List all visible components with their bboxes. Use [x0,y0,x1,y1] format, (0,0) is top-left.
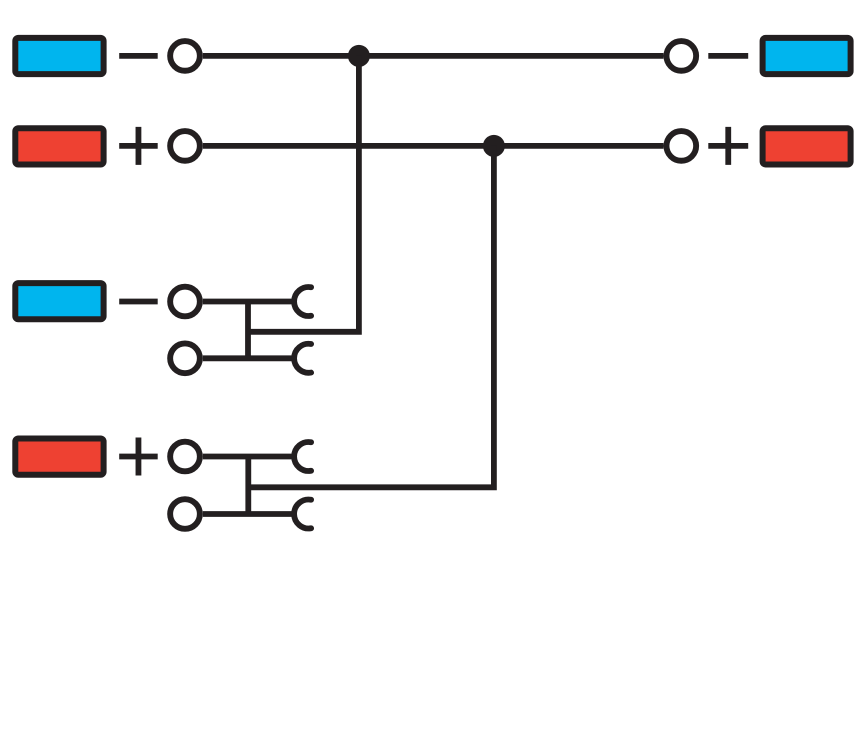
wire row 4 upper [203,454,293,460]
minus sign row 3 [119,299,158,305]
wire row 2 [203,143,664,149]
terminal circle row 3 lower [170,343,200,373]
terminal circle left row 2 [170,131,200,161]
tap contact row 3 upper [294,287,311,316]
terminal circle row 4 upper [170,442,200,472]
plus sign right row 2 [708,127,748,165]
distribution bar row 3 [245,302,251,359]
wire row 3 upper [203,299,293,305]
distribution bar row 4 [245,457,251,515]
plus sign row 4 [119,438,158,476]
terminal circle right row 1 [666,41,696,71]
tap contact row 4 upper [294,442,311,471]
terminal circle row 4 lower [170,499,200,529]
jumper wire from row 1 to row 3 [248,56,359,332]
wire row 1 [203,53,664,59]
red conductor marker right row 2 [763,128,851,164]
tap contact row 4 lower [294,500,311,529]
blue conductor marker row 3 [15,283,103,319]
red conductor marker left row 2 [15,128,103,164]
terminal circle right row 2 [666,131,696,161]
terminal circle row 3 upper [170,287,200,317]
junction dot row 2 [483,135,505,157]
tap contact row 3 lower [294,344,311,373]
minus sign left row 1 [119,53,158,59]
minus sign right row 1 [708,53,748,59]
jumper wire from row 2 to row 4 [248,146,494,487]
wire row 3 lower [203,355,293,361]
blue conductor marker right row 1 [763,38,851,74]
terminal circle left row 1 [170,41,200,71]
junction dot row 1 [348,45,370,67]
red conductor marker row 4 [15,439,103,475]
wire row 4 lower [203,511,293,517]
plus sign left row 2 [119,127,158,165]
blue conductor marker left row 1 [15,38,103,74]
